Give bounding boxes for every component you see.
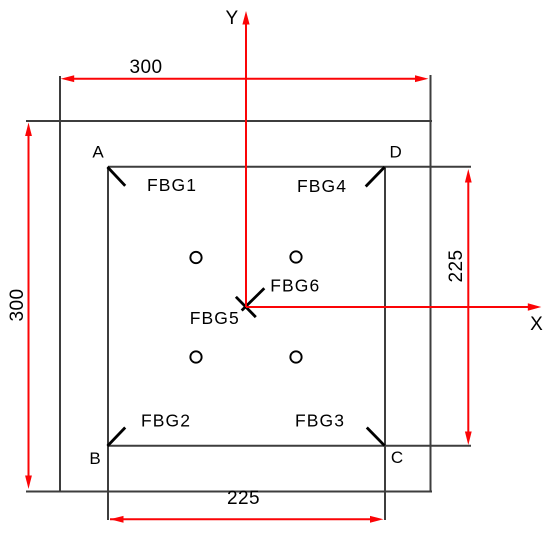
svg-text:300: 300 bbox=[130, 57, 163, 78]
svg-text:FBG4: FBG4 bbox=[297, 176, 347, 196]
svg-text:FBG5: FBG5 bbox=[190, 308, 240, 328]
svg-text:C: C bbox=[391, 448, 403, 467]
svg-text:FBG6: FBG6 bbox=[270, 275, 320, 295]
svg-text:FBG3: FBG3 bbox=[295, 411, 345, 431]
svg-text:225: 225 bbox=[227, 488, 260, 509]
svg-text:225: 225 bbox=[446, 250, 467, 283]
svg-text:A: A bbox=[92, 143, 104, 162]
svg-text:FBG1: FBG1 bbox=[147, 175, 197, 195]
svg-text:X: X bbox=[530, 314, 543, 335]
svg-text:300: 300 bbox=[7, 289, 28, 322]
svg-text:Y: Y bbox=[225, 8, 238, 29]
svg-text:FBG2: FBG2 bbox=[141, 411, 191, 431]
svg-text:B: B bbox=[89, 449, 100, 468]
svg-text:D: D bbox=[390, 143, 402, 162]
